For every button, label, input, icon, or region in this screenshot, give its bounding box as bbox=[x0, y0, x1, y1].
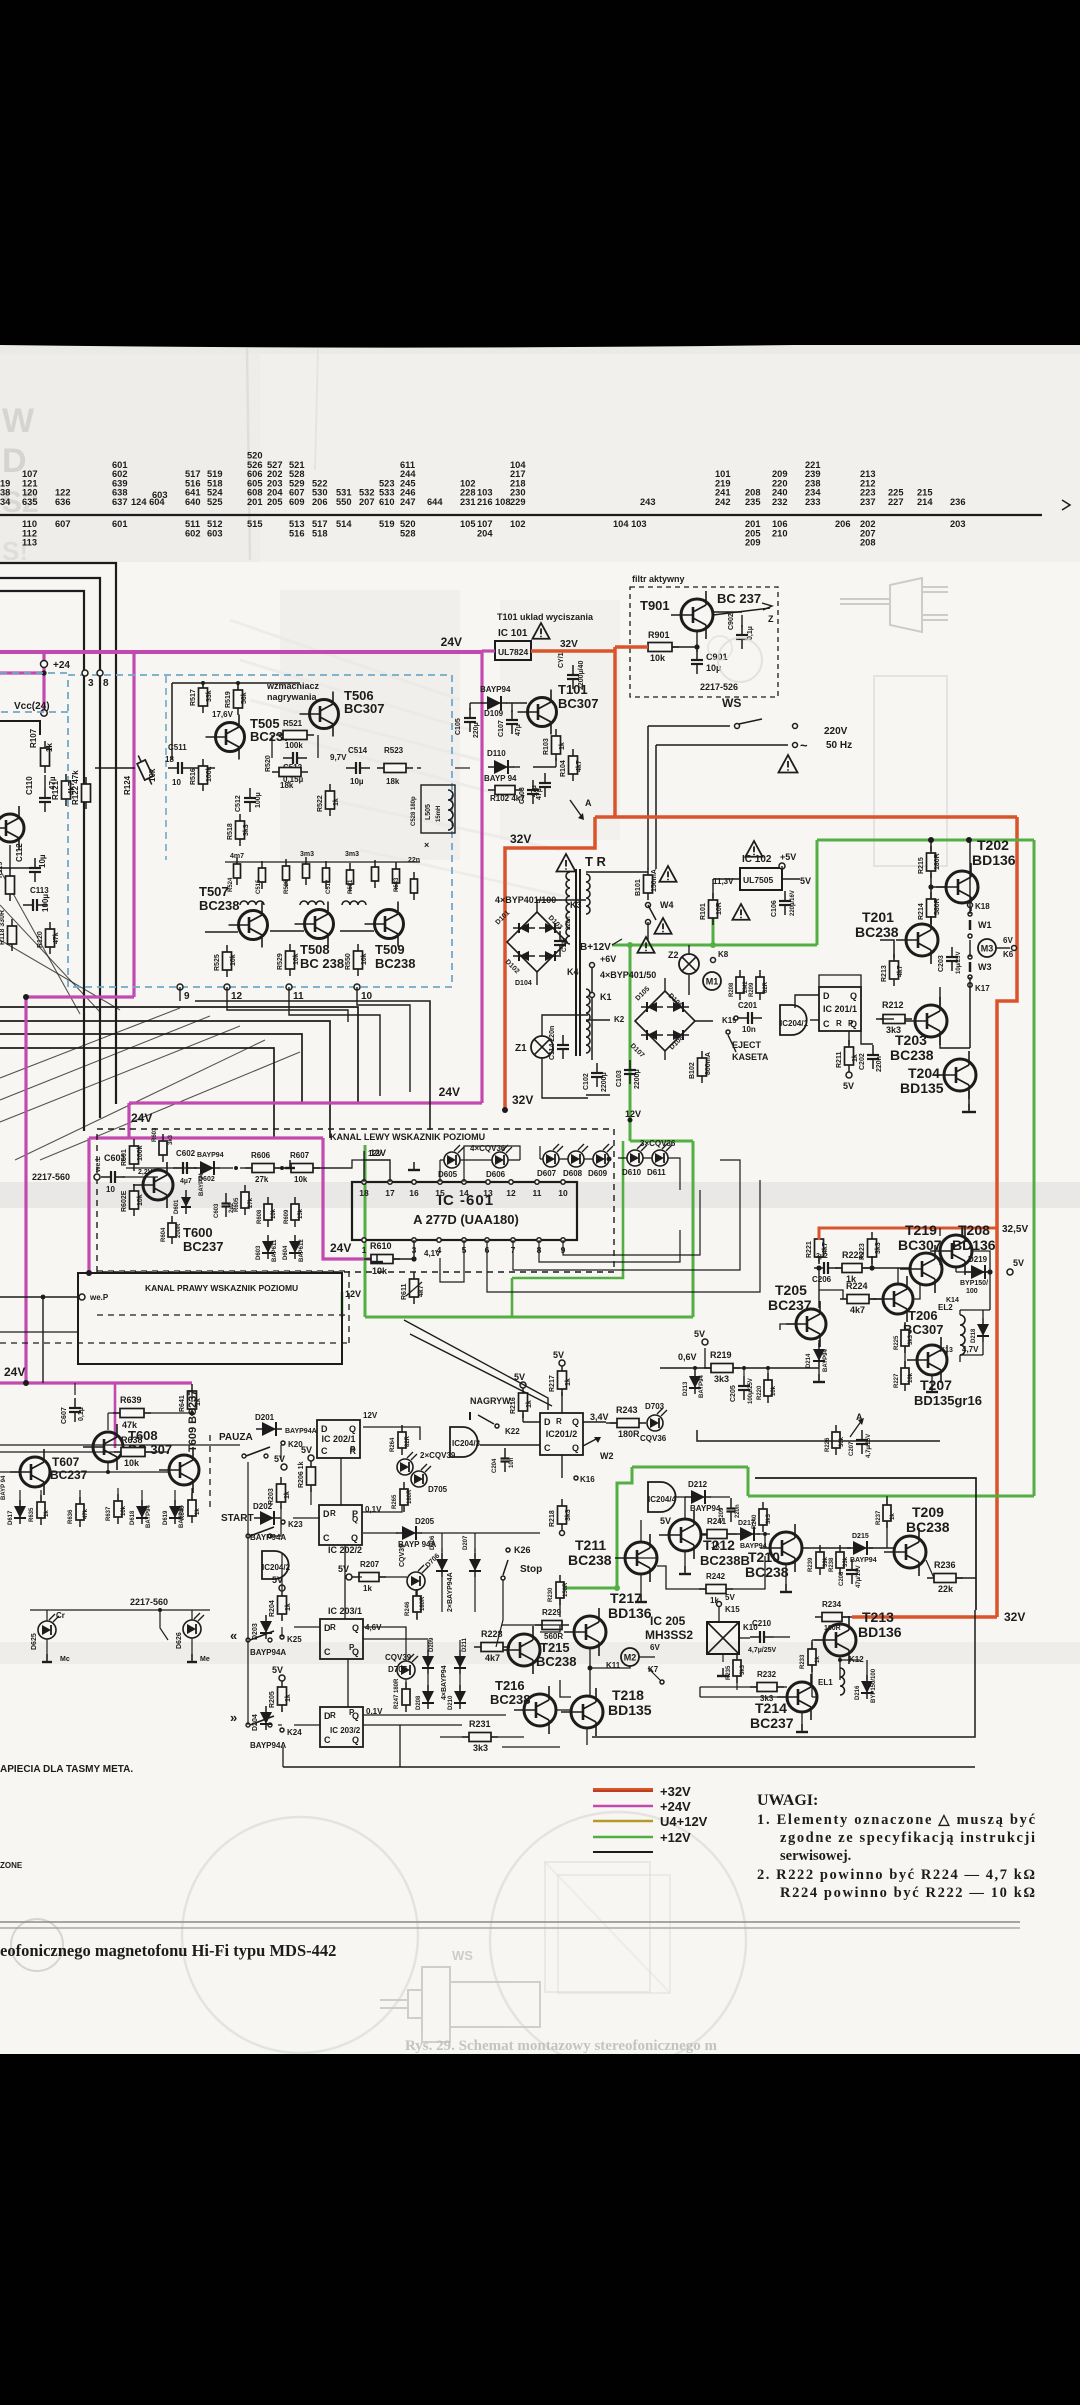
diode D209 bbox=[422, 1650, 434, 1674]
transistor T219 bbox=[900, 1245, 942, 1293]
wire rail drop bbox=[171, 683, 173, 760]
svg-text:Vcc(24): Vcc(24) bbox=[14, 701, 50, 712]
svg-text:214: 214 bbox=[917, 497, 933, 507]
svg-text:10µ: 10µ bbox=[38, 854, 47, 868]
svg-text:1k: 1k bbox=[285, 1694, 292, 1702]
svg-text:1k: 1k bbox=[526, 1400, 533, 1408]
diode D201 bbox=[256, 1422, 282, 1436]
resistor R605 bbox=[241, 1185, 249, 1215]
svg-text:10n: 10n bbox=[742, 1025, 756, 1034]
LED D705 bbox=[411, 1464, 431, 1487]
resistor R241 bbox=[700, 1530, 734, 1539]
wire +32V right vertical bbox=[997, 817, 1017, 1617]
svg-text:+5V: +5V bbox=[780, 852, 796, 862]
svg-text:we.L: we.L bbox=[95, 1156, 102, 1173]
wire +12V from R101 bbox=[712, 911, 715, 945]
svg-text:D: D bbox=[544, 1417, 551, 1427]
svg-text:D208: D208 bbox=[416, 1695, 422, 1710]
wire T203 collector up bbox=[939, 987, 941, 1006]
resistor R237 bbox=[883, 1498, 891, 1528]
svg-text:100k: 100k bbox=[285, 741, 303, 750]
motor M1 bbox=[703, 972, 721, 990]
LED D625 bbox=[38, 1614, 59, 1639]
svg-text:D617: D617 bbox=[8, 1510, 14, 1525]
svg-text:R236: R236 bbox=[934, 1560, 956, 1570]
capacitor C208 bbox=[846, 1560, 858, 1584]
svg-text:K16: K16 bbox=[580, 1475, 595, 1484]
diode D211 bbox=[454, 1650, 466, 1674]
transistor T507 bbox=[229, 903, 268, 948]
resistor R227 bbox=[901, 1361, 909, 1391]
svg-text:3k3: 3k3 bbox=[875, 1242, 882, 1254]
wire pins18 17 up bbox=[364, 1160, 390, 1182]
resistor R611 trimmer bbox=[410, 1272, 419, 1304]
svg-text:5V: 5V bbox=[338, 1564, 349, 1574]
black screen band bottom bbox=[0, 2054, 1080, 2400]
svg-text:D611: D611 bbox=[647, 1168, 666, 1177]
resistor R222 bbox=[835, 1264, 869, 1273]
capacitor C204 bbox=[501, 1448, 510, 1472]
svg-text:A: A bbox=[585, 798, 592, 808]
wire +12V IC601 top bbox=[630, 1140, 693, 1143]
svg-text:5V: 5V bbox=[843, 1081, 854, 1091]
wire T216 route bbox=[502, 1710, 524, 1737]
arrow A bbox=[570, 800, 582, 817]
wire R607 to pin18 bbox=[313, 1160, 364, 1168]
svg-text:10R: 10R bbox=[716, 902, 723, 915]
wire +12V horizontal y=1467 bbox=[632, 1466, 748, 1469]
svg-text:D213: D213 bbox=[683, 1381, 689, 1396]
svg-text:R637: R637 bbox=[106, 1506, 112, 1521]
svg-text:serwisowej.: serwisowej. bbox=[780, 1848, 851, 1864]
resistor R529 bbox=[286, 944, 295, 976]
svg-text:MH3SS2: MH3SS2 bbox=[645, 1628, 693, 1642]
svg-text:T218: T218 bbox=[612, 1687, 644, 1703]
wire +12V B+12V horizontal bbox=[612, 944, 817, 947]
svg-text:5V: 5V bbox=[272, 1665, 283, 1675]
svg-text:D104: D104 bbox=[515, 980, 532, 987]
svg-text:3k3: 3k3 bbox=[760, 1694, 774, 1703]
svg-text:UL7505: UL7505 bbox=[743, 875, 774, 885]
svg-text:R641: R641 bbox=[179, 1395, 186, 1412]
svg-text:10k: 10k bbox=[372, 1266, 388, 1276]
wire +12V top horizontal bbox=[817, 839, 1034, 842]
svg-text:4,7V: 4,7V bbox=[962, 1345, 979, 1354]
svg-text:T216: T216 bbox=[495, 1678, 525, 1693]
dashed box wzmacniacz nagrywania bbox=[68, 675, 452, 987]
svg-text:ZONE: ZONE bbox=[0, 1861, 23, 1870]
resistor B102 bbox=[698, 1051, 707, 1083]
svg-text:R602E: R602E bbox=[121, 1190, 128, 1212]
resistor R637 bbox=[114, 1494, 122, 1524]
svg-text:BD136: BD136 bbox=[608, 1605, 652, 1621]
svg-text:Q: Q bbox=[352, 1515, 358, 1524]
long wire K16 row bbox=[0, 1444, 240, 1446]
transformer wires bbox=[586, 871, 648, 873]
svg-text:10k: 10k bbox=[361, 953, 368, 965]
wire R215 bbox=[930, 840, 932, 851]
svg-text:150R: 150R bbox=[563, 1582, 569, 1597]
svg-text:D218: D218 bbox=[971, 1328, 977, 1343]
legend U4+12V line bbox=[593, 1820, 653, 1823]
wire IC102 out bbox=[781, 866, 783, 879]
wire R521 frame bbox=[271, 735, 273, 758]
svg-text:B102: B102 bbox=[689, 1062, 696, 1079]
index rule arrow bbox=[1062, 500, 1070, 510]
svg-text:1k: 1k bbox=[44, 1510, 50, 1517]
long wire mid verticals bbox=[379, 1060, 381, 1096]
svg-text:R239: R239 bbox=[808, 1557, 814, 1572]
svg-text:D205: D205 bbox=[415, 1517, 435, 1526]
svg-text:2200µ: 2200µ bbox=[634, 1069, 641, 1089]
resistor R238 bbox=[836, 1545, 844, 1575]
resistor R232 bbox=[750, 1683, 784, 1692]
LED D704 bbox=[397, 1452, 417, 1475]
svg-text:R522: R522 bbox=[317, 795, 324, 812]
svg-text:4k7: 4k7 bbox=[850, 1305, 865, 1315]
svg-text:C: C bbox=[324, 1735, 331, 1745]
svg-text:CQV39: CQV39 bbox=[399, 1544, 406, 1567]
terminal 5V R205 bbox=[279, 1675, 285, 1681]
svg-text:18k: 18k bbox=[280, 781, 294, 790]
capacitor C101 bbox=[567, 665, 579, 689]
svg-text:R518: R518 bbox=[227, 823, 234, 840]
svg-text:34: 34 bbox=[0, 497, 11, 507]
svg-text:R520: R520 bbox=[265, 755, 272, 772]
svg-text:IC204/2: IC204/2 bbox=[262, 1563, 291, 1572]
svg-text:C202: C202 bbox=[859, 1053, 866, 1070]
svg-text:R611: R611 bbox=[401, 1284, 408, 1300]
resistor R601 bbox=[130, 1139, 139, 1171]
svg-text:D608: D608 bbox=[563, 1169, 583, 1178]
svg-text:206: 206 bbox=[835, 519, 851, 529]
wire +24V long vertical x=482 bbox=[480, 652, 483, 1103]
svg-text:203: 203 bbox=[950, 519, 966, 529]
wire we.P left bbox=[0, 1296, 78, 1298]
transistor T212 bbox=[659, 1511, 701, 1559]
svg-text:528: 528 bbox=[400, 528, 416, 538]
wires IC205 bbox=[718, 1607, 720, 1622]
svg-text:R207: R207 bbox=[360, 1560, 380, 1569]
svg-text:102: 102 bbox=[510, 519, 526, 529]
svg-text:P: P bbox=[349, 1708, 355, 1717]
svg-text:T217: T217 bbox=[610, 1590, 642, 1606]
svg-text:D618: D618 bbox=[130, 1510, 136, 1525]
terminal +24 bbox=[41, 661, 48, 668]
switch WS mains bbox=[648, 725, 730, 727]
svg-text:D610: D610 bbox=[622, 1168, 642, 1177]
svg-text:204: 204 bbox=[477, 528, 493, 538]
svg-text:1. Elementy oznaczone △ muszą: 1. Elementy oznaczone △ muszą być bbox=[757, 1812, 1036, 1828]
svg-text:124 604: 124 604 bbox=[131, 497, 165, 507]
resistor R204 bbox=[278, 1589, 287, 1621]
resistor R230 bbox=[556, 1575, 564, 1605]
resistor R228 bbox=[474, 1643, 510, 1652]
svg-text:180R: 180R bbox=[824, 1625, 841, 1632]
svg-text:24V: 24V bbox=[330, 1241, 351, 1255]
svg-text:609: 609 bbox=[289, 497, 305, 507]
wire +32V horizontal y=817 bbox=[595, 815, 1017, 819]
resistor R218 bbox=[558, 1499, 567, 1531]
svg-text:206: 206 bbox=[312, 497, 328, 507]
svg-text:B+12V: B+12V bbox=[580, 942, 611, 953]
bridge1 diodes bbox=[513, 923, 535, 933]
node 8 bbox=[97, 670, 103, 676]
warning triangle mains bbox=[779, 755, 798, 773]
ghost rects bottom right bbox=[545, 1862, 650, 1992]
resistor R205 bbox=[278, 1680, 287, 1712]
diode D618 bbox=[136, 1500, 148, 1524]
svg-text:216: 216 bbox=[477, 497, 493, 507]
svg-text:C106: C106 bbox=[771, 900, 778, 917]
resistor R225 bbox=[901, 1323, 909, 1353]
svg-text:R: R bbox=[330, 1623, 336, 1632]
IC202/1 box bbox=[317, 1420, 360, 1458]
svg-text:«: « bbox=[230, 1628, 237, 1643]
switch nagryw bbox=[478, 1415, 494, 1424]
wire LED out right bbox=[668, 1158, 680, 1190]
resistor R213 bbox=[890, 954, 899, 986]
transformer core bbox=[575, 869, 577, 1056]
svg-text:47µ/16V: 47µ/16V bbox=[856, 1566, 862, 1588]
svg-text:K17: K17 bbox=[975, 984, 990, 993]
transistor T208 bbox=[930, 1227, 972, 1275]
svg-text:D204: D204 bbox=[252, 1714, 259, 1731]
svg-text:4k7: 4k7 bbox=[576, 760, 583, 772]
capacitor C514 bbox=[346, 762, 370, 774]
svg-text:BYP150/: BYP150/ bbox=[960, 1280, 988, 1287]
left box edge bbox=[0, 721, 40, 735]
svg-text:BC238: BC238 bbox=[199, 898, 239, 913]
svg-text:BC 238: BC 238 bbox=[300, 956, 344, 971]
box around T209 bbox=[755, 1478, 976, 1610]
wire +24V drop to KANAL PRAWY bbox=[87, 1138, 90, 1271]
resistor R247 bbox=[402, 1682, 410, 1712]
wire +32V down x=615 bbox=[613, 647, 617, 817]
wire LED chain bbox=[440, 1159, 444, 1161]
svg-text:3m3: 3m3 bbox=[345, 851, 359, 858]
svg-text:R635: R635 bbox=[29, 1507, 35, 1522]
svg-text:14: 14 bbox=[459, 1188, 469, 1198]
ghost diagonal traces upper middle bbox=[230, 620, 460, 700]
svg-text:R120: R120 bbox=[37, 931, 44, 948]
svg-text:3,4V: 3,4V bbox=[590, 1412, 609, 1422]
transistor T901 bbox=[671, 591, 713, 639]
svg-text:R638: R638 bbox=[121, 1435, 143, 1445]
svg-text:D202: D202 bbox=[253, 1502, 273, 1511]
wire R232 T214 bbox=[700, 1686, 757, 1688]
diode D202 bbox=[254, 1511, 280, 1525]
svg-text:Mc: Mc bbox=[60, 1656, 70, 1663]
IC205 box with X bbox=[707, 1622, 739, 1654]
svg-text:10k: 10k bbox=[650, 653, 666, 663]
svg-text:BAP611: BAP611 bbox=[272, 1239, 278, 1262]
svg-text:R224 powinno być R222 — 10 kΩ: R224 powinno być R222 — 10 kΩ bbox=[780, 1885, 1035, 1901]
svg-text:32,5V: 32,5V bbox=[1002, 1224, 1028, 1235]
svg-text:100: 100 bbox=[966, 1288, 978, 1295]
svg-text:243: 243 bbox=[640, 497, 656, 507]
svg-text:4×BYP401/50: 4×BYP401/50 bbox=[600, 970, 656, 980]
svg-text:W3: W3 bbox=[978, 962, 992, 972]
svg-text:R215: R215 bbox=[918, 857, 925, 874]
resistor R124 trimmer bbox=[134, 754, 156, 787]
svg-text:3k3: 3k3 bbox=[908, 1334, 914, 1345]
svg-text:R227: R227 bbox=[894, 1373, 900, 1388]
svg-text:R206 1k: R206 1k bbox=[298, 1461, 305, 1488]
svg-text:640: 640 bbox=[185, 497, 201, 507]
svg-text:D606: D606 bbox=[486, 1170, 506, 1179]
svg-text:220n: 220n bbox=[566, 916, 572, 930]
svg-text:BAYP94A: BAYP94A bbox=[285, 1428, 317, 1435]
svg-text:R243: R243 bbox=[616, 1405, 638, 1415]
capacitor C209 bbox=[727, 1498, 736, 1522]
wires T607-T609 bbox=[0, 1471, 20, 1473]
svg-text:C208: C208 bbox=[839, 1571, 845, 1586]
resistor R208 bbox=[736, 970, 744, 1000]
svg-text:47k: 47k bbox=[53, 932, 60, 944]
resistor R220 bbox=[764, 1373, 772, 1403]
svg-text:IC 202/1: IC 202/1 bbox=[321, 1434, 355, 1444]
svg-text:4k7: 4k7 bbox=[897, 965, 904, 977]
resistor R523 bbox=[377, 764, 413, 773]
LED D611 bbox=[652, 1143, 672, 1166]
transistor T216 bbox=[514, 1686, 556, 1734]
svg-text:Z1: Z1 bbox=[515, 1043, 527, 1054]
resistor R239 bbox=[816, 1545, 824, 1575]
svg-text:4µ7: 4µ7 bbox=[180, 1178, 192, 1185]
wire +12V inner seg bbox=[512, 1141, 623, 1278]
IC202/2 box bbox=[319, 1505, 362, 1545]
svg-text:C: C bbox=[323, 1533, 330, 1543]
svg-text:R610: R610 bbox=[370, 1241, 392, 1251]
resistor R102 bbox=[488, 786, 522, 795]
transformer primary coil bbox=[566, 872, 570, 944]
terminal 5V R203 bbox=[281, 1464, 287, 1470]
diode D206 bbox=[436, 1553, 448, 1577]
svg-text:BD135: BD135 bbox=[608, 1702, 652, 1718]
svg-text:C528 180p: C528 180p bbox=[411, 796, 417, 826]
svg-text:516: 516 bbox=[289, 528, 305, 538]
wires T209 region bbox=[869, 1547, 894, 1549]
svg-text:R: R bbox=[556, 1417, 562, 1426]
svg-text:R205: R205 bbox=[269, 1691, 276, 1708]
svg-text:10: 10 bbox=[558, 1188, 568, 1198]
svg-text:50 Hz: 50 Hz bbox=[826, 740, 852, 751]
svg-text:IC201/2: IC201/2 bbox=[546, 1429, 578, 1439]
svg-text:Me: Me bbox=[200, 1656, 210, 1663]
svg-text:12V: 12V bbox=[363, 1411, 378, 1420]
long wire pin12 drop bbox=[227, 987, 348, 1022]
svg-text:C602: C602 bbox=[176, 1149, 196, 1158]
bus wire 2 bbox=[0, 1021, 330, 1138]
svg-text:R533: R533 bbox=[394, 877, 400, 892]
resistor R550 bbox=[354, 944, 363, 976]
diode D210 bbox=[454, 1685, 466, 1709]
wire M3 column bbox=[969, 905, 971, 914]
svg-text:1k: 1k bbox=[363, 1584, 372, 1593]
svg-text:D626: D626 bbox=[176, 1632, 183, 1649]
ground T600 bbox=[285, 1160, 295, 1168]
svg-text:2,2V: 2,2V bbox=[138, 1169, 153, 1176]
resistor R209 bbox=[756, 970, 764, 1000]
wire ff top link bbox=[819, 975, 861, 987]
motor M2 bbox=[621, 1648, 639, 1666]
transistor T202 bbox=[936, 863, 978, 911]
paper fold line bbox=[247, 348, 250, 560]
svg-text:0,6V: 0,6V bbox=[678, 1352, 697, 1362]
svg-text:2217-560: 2217-560 bbox=[32, 1172, 70, 1182]
transistor left opamp bbox=[0, 806, 24, 850]
svg-text:1k: 1k bbox=[285, 1603, 292, 1611]
svg-text:607: 607 bbox=[55, 519, 71, 529]
svg-text:10: 10 bbox=[172, 778, 181, 787]
transistor T608 bbox=[83, 1424, 123, 1470]
svg-text:10k: 10k bbox=[908, 1372, 914, 1383]
capacitor C601 bbox=[101, 1171, 125, 1183]
filter coils bbox=[240, 901, 264, 905]
svg-text:C902: C902 bbox=[728, 613, 735, 630]
svg-text:27k: 27k bbox=[255, 1175, 269, 1184]
svg-text:220µ/16V: 220µ/16V bbox=[790, 890, 796, 916]
svg-text:T508: T508 bbox=[300, 942, 330, 957]
transistor T209 bbox=[884, 1528, 926, 1576]
svg-text:1k: 1k bbox=[815, 1656, 821, 1663]
svg-text:R519: R519 bbox=[225, 691, 232, 708]
svg-text:R247 180R: R247 180R bbox=[394, 1678, 400, 1709]
IC203/2 box bbox=[320, 1707, 363, 1747]
wires T203 T204 bbox=[969, 985, 971, 1048]
svg-text:3k3: 3k3 bbox=[886, 1025, 901, 1035]
transistor T218 bbox=[561, 1688, 603, 1736]
svg-text:T213: T213 bbox=[862, 1609, 894, 1625]
svg-text:10k: 10k bbox=[121, 1505, 127, 1516]
transformer tap wires bbox=[586, 1019, 610, 1021]
filter cluster top bbox=[234, 857, 241, 885]
svg-text:Z: Z bbox=[768, 614, 774, 624]
svg-text:4,1V: 4,1V bbox=[424, 1249, 441, 1258]
svg-text:R226: R226 bbox=[825, 1437, 831, 1452]
terminal 5V R207 bbox=[346, 1574, 352, 1580]
svg-text:3k3: 3k3 bbox=[714, 1374, 729, 1384]
wire LED feeds bbox=[439, 1160, 441, 1182]
capacitor C104 bbox=[539, 773, 551, 797]
svg-text:T215: T215 bbox=[540, 1640, 570, 1655]
svg-text:BC 237: BC 237 bbox=[717, 591, 761, 606]
dashed box KANAL LEWY bbox=[97, 1129, 614, 1272]
svg-text:B101: B101 bbox=[635, 879, 642, 896]
svg-text:IC 201/1: IC 201/1 bbox=[823, 1004, 857, 1014]
svg-text:APIECIA DLA TASMY META.: APIECIA DLA TASMY META. bbox=[0, 1764, 133, 1775]
svg-text:180R: 180R bbox=[407, 1489, 413, 1504]
svg-text:9,7V: 9,7V bbox=[330, 753, 347, 762]
transistor T214 bbox=[777, 1674, 817, 1720]
transistor T101 bbox=[518, 690, 557, 735]
switch rail vertical bbox=[247, 1462, 249, 1725]
wire +12V link bbox=[747, 1467, 750, 1496]
terminal 5V D219 bbox=[1007, 1269, 1013, 1275]
gate IC204/2 bbox=[262, 1551, 289, 1579]
svg-text:R517: R517 bbox=[190, 689, 197, 706]
capacitor C902 bbox=[736, 625, 748, 649]
svg-text:R901: R901 bbox=[648, 630, 670, 640]
svg-text:BAYP94: BAYP94 bbox=[740, 1543, 767, 1550]
svg-text:47k: 47k bbox=[83, 1508, 89, 1519]
svg-text:IC 101: IC 101 bbox=[498, 628, 528, 639]
capacitor C203 bbox=[946, 947, 958, 971]
svg-text:T209: T209 bbox=[912, 1504, 944, 1520]
svg-text:602: 602 bbox=[185, 528, 201, 538]
resistor R242 bbox=[699, 1585, 733, 1594]
